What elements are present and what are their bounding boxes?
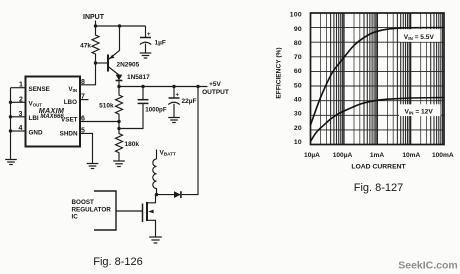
wire vset to divider bbox=[118, 122, 120, 129]
pin label VIN bbox=[68, 86, 77, 93]
svg-text:3: 3 bbox=[19, 111, 23, 118]
svg-text:GND: GND bbox=[29, 130, 43, 137]
pin number 5 bbox=[81, 127, 85, 134]
wire left ground bus bbox=[10, 88, 12, 160]
node rail-1000pF bbox=[141, 85, 144, 88]
svg-text:VIN = 5.5V: VIN = 5.5V bbox=[404, 34, 435, 41]
svg-text:Fig. 8-126: Fig. 8-126 bbox=[93, 256, 143, 268]
node rail-diode bbox=[117, 85, 120, 88]
pin number 4 bbox=[19, 125, 23, 132]
svg-text:+: + bbox=[147, 32, 151, 38]
axis label 100 bbox=[290, 12, 302, 146]
caption Fig. 8-127 bbox=[354, 182, 404, 194]
node input junction bbox=[94, 24, 97, 27]
pin number 2 bbox=[19, 96, 23, 103]
svg-text:90: 90 bbox=[294, 26, 302, 33]
svg-text:5: 5 bbox=[81, 127, 85, 134]
axis label 10uA bbox=[304, 152, 454, 159]
wire pin2 stub bbox=[11, 101, 26, 103]
node bus pin2 bbox=[9, 101, 12, 104]
wire pin4 stub bbox=[11, 130, 26, 132]
svg-text:7: 7 bbox=[81, 94, 85, 101]
pin label SENSE bbox=[29, 86, 50, 93]
pin number 8 bbox=[81, 79, 85, 86]
graph grid minor vertical clusters bbox=[331, 13, 443, 145]
graph grid minor verticals bbox=[321, 13, 427, 145]
boost regulator IC bracket bbox=[94, 191, 116, 230]
pin label VSET bbox=[61, 116, 78, 123]
logo MAXIM bbox=[39, 106, 65, 115]
axis title EFFICIENCY (%) bbox=[276, 47, 283, 98]
node bus pin4 bbox=[9, 129, 12, 132]
node INPUT label bbox=[83, 14, 105, 21]
resistor R1 47k bbox=[80, 26, 99, 85]
svg-text:VIN: VIN bbox=[68, 86, 77, 93]
curve VIN 12V bbox=[311, 98, 445, 142]
svg-text:Fig. 8-127: Fig. 8-127 bbox=[354, 182, 404, 194]
pin label SHDN bbox=[60, 131, 78, 138]
graph grid horizontals bbox=[311, 28, 445, 130]
node rail-output-drop bbox=[196, 85, 199, 88]
ground R3 bbox=[113, 161, 125, 167]
ground C3 bbox=[168, 118, 180, 123]
wire pin1 stub bbox=[11, 87, 26, 89]
wire output drop bbox=[182, 87, 198, 195]
svg-text:1N5817: 1N5817 bbox=[127, 74, 150, 81]
node base junction bbox=[94, 61, 97, 64]
svg-text:LBI: LBI bbox=[29, 115, 39, 122]
resistor R2 510k bbox=[99, 87, 122, 122]
svg-text:SeekIC.com: SeekIC.com bbox=[398, 260, 458, 272]
svg-text:60: 60 bbox=[294, 68, 302, 75]
node divider junction bbox=[117, 127, 120, 130]
svg-text:30: 30 bbox=[294, 111, 302, 118]
axis title LOAD CURRENT bbox=[351, 164, 406, 171]
diode D2 catch bbox=[157, 191, 181, 198]
node bus pin3 bbox=[9, 115, 12, 118]
wire pin5 SHDN bbox=[80, 133, 93, 163]
caption Fig. 8-126 bbox=[93, 256, 143, 268]
svg-text:REGULATOR: REGULATOR bbox=[72, 206, 112, 213]
svg-text:EFFICIENCY (%): EFFICIENCY (%) bbox=[276, 47, 283, 98]
svg-text:100: 100 bbox=[290, 12, 302, 19]
pin label LBO bbox=[64, 99, 77, 106]
curve VIN 5.5V bbox=[311, 28, 445, 126]
wire +5V rail bbox=[119, 86, 208, 88]
pin label LBI bbox=[29, 115, 39, 122]
watermark SeekIC.com bbox=[398, 260, 458, 272]
pin number 3 bbox=[19, 111, 23, 118]
svg-text:10: 10 bbox=[294, 139, 302, 146]
transistor Q1 2N2905 bbox=[108, 26, 140, 75]
svg-text:VIN = 12V: VIN = 12V bbox=[405, 108, 434, 115]
node VBATT label bbox=[160, 150, 176, 157]
capacitor C1 1uF bbox=[140, 26, 166, 53]
svg-text:+5V: +5V bbox=[209, 81, 221, 88]
capacitor C2 1000pF bbox=[119, 87, 167, 129]
svg-text:10mA: 10mA bbox=[402, 152, 420, 159]
svg-text:2N2905: 2N2905 bbox=[117, 62, 140, 69]
svg-text:+: + bbox=[176, 93, 180, 99]
part number MAX666 bbox=[40, 114, 64, 120]
svg-text:1µF: 1µF bbox=[155, 40, 166, 47]
label box VIN = 12V bbox=[399, 104, 441, 116]
svg-text:6: 6 bbox=[81, 116, 85, 123]
svg-text:SHDN: SHDN bbox=[60, 131, 78, 138]
svg-text:100mA: 100mA bbox=[432, 152, 454, 159]
wire pin3 stub bbox=[11, 116, 26, 118]
svg-text:1: 1 bbox=[19, 82, 23, 89]
wire input drop bbox=[95, 21, 97, 27]
svg-text:80: 80 bbox=[294, 40, 302, 47]
diode D1 1N5817 bbox=[116, 74, 151, 87]
svg-text:22µF: 22µF bbox=[182, 98, 197, 105]
svg-text:47k: 47k bbox=[80, 43, 91, 50]
svg-text:10µA: 10µA bbox=[304, 152, 320, 159]
wire pin7 stub bbox=[80, 99, 89, 101]
svg-text:MAX666: MAX666 bbox=[40, 114, 64, 120]
wire vbatt drop bbox=[156, 150, 158, 160]
inductor L1 bbox=[153, 159, 157, 195]
node emitter tap bbox=[118, 24, 121, 27]
graph grid major verticals bbox=[344, 13, 411, 145]
svg-text:1mA: 1mA bbox=[370, 152, 385, 159]
wire VSET bbox=[80, 121, 119, 123]
pin number 1 bbox=[19, 82, 23, 89]
node vset junction bbox=[117, 120, 120, 123]
svg-text:BOOST: BOOST bbox=[72, 199, 95, 206]
ground Q2 bbox=[149, 237, 162, 243]
pin label VOUT bbox=[29, 101, 43, 108]
label box VIN = 5.5V bbox=[400, 29, 441, 42]
graph plot border bbox=[311, 13, 445, 145]
svg-text:100µA: 100µA bbox=[333, 152, 353, 159]
svg-text:510k: 510k bbox=[99, 103, 114, 110]
capacitor C3 22uF bbox=[168, 87, 196, 118]
svg-text:20: 20 bbox=[294, 125, 302, 132]
svg-text:2: 2 bbox=[19, 96, 23, 103]
pin number 7 bbox=[81, 94, 85, 101]
svg-text:SENSE: SENSE bbox=[29, 86, 50, 93]
ground left bus bbox=[5, 160, 17, 165]
svg-text:50: 50 bbox=[294, 82, 302, 89]
node +5V OUTPUT label bbox=[202, 81, 229, 96]
svg-text:IC: IC bbox=[72, 214, 79, 221]
transistor Q2 MOSFET bbox=[116, 195, 156, 237]
wire top rail bbox=[96, 25, 146, 27]
svg-text:180k: 180k bbox=[125, 141, 140, 148]
pin number 6 bbox=[81, 116, 85, 123]
svg-text:VBATT: VBATT bbox=[160, 150, 176, 157]
op-amp U1 MAX666 box bbox=[26, 77, 81, 147]
node BOOST REGULATOR IC label bbox=[72, 199, 112, 221]
wire base lead bbox=[96, 62, 109, 64]
svg-text:1000pF: 1000pF bbox=[145, 106, 167, 113]
node rail-22uF bbox=[172, 85, 175, 88]
svg-text:OUTPUT: OUTPUT bbox=[202, 89, 229, 96]
svg-text:INPUT: INPUT bbox=[83, 14, 105, 21]
svg-text:40: 40 bbox=[294, 97, 302, 104]
svg-text:LBO: LBO bbox=[64, 99, 77, 106]
svg-text:70: 70 bbox=[294, 54, 302, 61]
svg-text:4: 4 bbox=[19, 125, 23, 132]
node coil-drain junction bbox=[155, 193, 158, 196]
svg-text:8: 8 bbox=[81, 79, 85, 86]
ground C1 bbox=[140, 53, 152, 58]
ground SHDN bbox=[87, 164, 99, 169]
pin label GND bbox=[29, 130, 43, 137]
svg-text:LOAD CURRENT: LOAD CURRENT bbox=[351, 164, 406, 171]
resistor R3 180k bbox=[116, 129, 140, 161]
